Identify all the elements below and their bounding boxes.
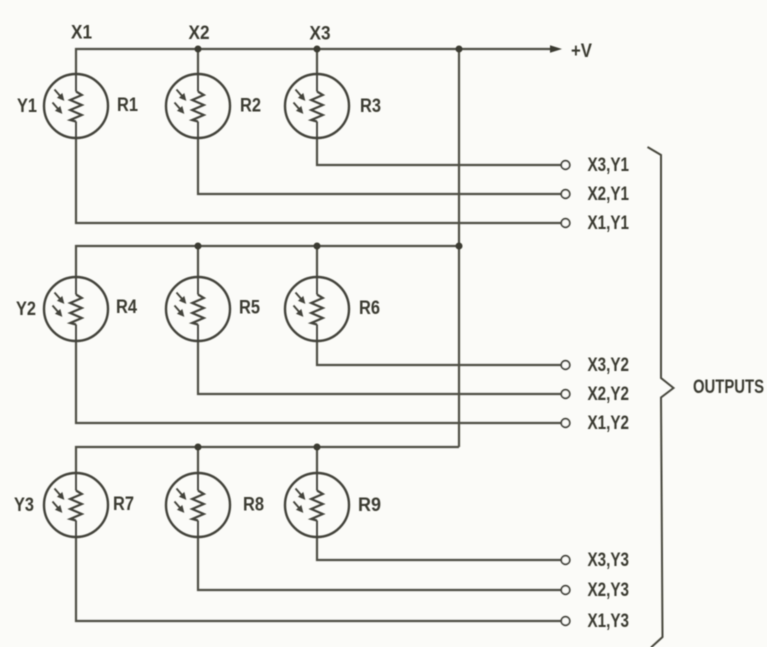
photoresistor R6 bbox=[285, 277, 349, 341]
output terminal X3,Y3 bbox=[561, 556, 570, 565]
svg-text:X2: X2 bbox=[189, 23, 210, 44]
svg-text:R5: R5 bbox=[239, 298, 260, 319]
svg-text:R6: R6 bbox=[359, 298, 380, 319]
svg-text:X1: X1 bbox=[71, 23, 92, 44]
photoresistor R5 bbox=[166, 277, 230, 341]
svg-text:X1,Y3: X1,Y3 bbox=[588, 611, 630, 632]
wire X2 drop row2 bbox=[197, 246, 199, 277]
svg-text:+V: +V bbox=[571, 41, 592, 62]
svg-text:R1: R1 bbox=[117, 95, 138, 116]
junction node feeder row2 bbox=[456, 243, 463, 250]
svg-text:R3: R3 bbox=[360, 96, 381, 117]
output terminal X2,Y3 bbox=[561, 586, 570, 595]
output terminal X2,Y2 bbox=[561, 390, 570, 399]
junction node X3 row1 bbox=[314, 46, 321, 53]
junction node feeder row1 bbox=[456, 46, 463, 53]
svg-text:X1,Y2: X1,Y2 bbox=[588, 413, 630, 434]
wire R7 output to X1,Y3 bbox=[76, 537, 561, 621]
junction node X2 row2 bbox=[195, 243, 202, 250]
arrowhead +V bbox=[550, 45, 562, 52]
output terminal X1,Y2 bbox=[561, 419, 570, 428]
photoresistor R4 bbox=[44, 277, 108, 341]
output terminal X1,Y3 bbox=[561, 617, 570, 626]
photoresistor R1 bbox=[44, 74, 108, 138]
wire R5 output to X2,Y2 bbox=[198, 341, 561, 394]
wire X3 drop row3 bbox=[316, 447, 318, 473]
svg-text:Y1: Y1 bbox=[17, 96, 37, 117]
svg-text:X2,Y1: X2,Y1 bbox=[588, 184, 630, 205]
wire R6 output to X3,Y2 bbox=[317, 341, 561, 365]
wire R9 output to X3,Y3 bbox=[317, 537, 561, 560]
photoresistor R7 bbox=[44, 473, 108, 537]
svg-text:X2,Y3: X2,Y3 bbox=[588, 580, 630, 601]
junction node X3 row3 bbox=[314, 444, 321, 451]
svg-text:R4: R4 bbox=[116, 297, 137, 318]
wire R8 output to X2,Y3 bbox=[198, 537, 561, 590]
svg-text:X3,Y3: X3,Y3 bbox=[588, 550, 630, 571]
wire row3 bus bbox=[76, 447, 459, 473]
photoresistor R3 bbox=[285, 74, 349, 138]
output terminal X3,Y2 bbox=[561, 361, 570, 370]
output terminal X1,Y1 bbox=[561, 219, 570, 228]
svg-text:X3,Y1: X3,Y1 bbox=[588, 155, 630, 176]
brace OUTPUTS bbox=[648, 147, 674, 647]
wire R4 output to X1,Y2 bbox=[76, 341, 561, 423]
wire X2 drop row3 bbox=[197, 447, 199, 473]
output terminal X3,Y1 bbox=[561, 161, 570, 170]
junction node X2 row1 bbox=[195, 46, 202, 53]
wire R1 output to X1,Y1 bbox=[76, 138, 561, 223]
junction node X2 row3 bbox=[195, 444, 202, 451]
svg-text:Y3: Y3 bbox=[14, 495, 34, 516]
output terminal X2,Y1 bbox=[561, 190, 570, 199]
wire X2 top drop row1 bbox=[197, 49, 199, 74]
wire R2 output to X2,Y1 bbox=[198, 138, 561, 194]
wire +V vertical feeder bbox=[458, 49, 460, 447]
photoresistor R9 bbox=[285, 473, 349, 537]
wire X3 top drop row1 bbox=[316, 49, 318, 74]
svg-text:X1,Y1: X1,Y1 bbox=[588, 213, 630, 234]
wire +V top bus bbox=[76, 49, 551, 74]
svg-text:OUTPUTS: OUTPUTS bbox=[693, 377, 764, 398]
svg-text:X2,Y2: X2,Y2 bbox=[588, 384, 630, 405]
wire row2 bus bbox=[76, 246, 459, 277]
wire R3 output to X3,Y1 bbox=[317, 138, 561, 165]
svg-text:X3,Y2: X3,Y2 bbox=[588, 355, 630, 376]
svg-text:R8: R8 bbox=[243, 495, 264, 516]
photoresistor R8 bbox=[166, 473, 230, 537]
svg-text:R7: R7 bbox=[113, 494, 134, 515]
junction node X3 row2 bbox=[314, 243, 321, 250]
photoresistor R2 bbox=[166, 74, 230, 138]
wire X3 drop row2 bbox=[316, 246, 318, 277]
svg-text:X3: X3 bbox=[310, 24, 331, 45]
svg-text:R9: R9 bbox=[358, 495, 381, 516]
svg-text:R2: R2 bbox=[240, 96, 261, 117]
svg-text:Y2: Y2 bbox=[16, 299, 36, 320]
